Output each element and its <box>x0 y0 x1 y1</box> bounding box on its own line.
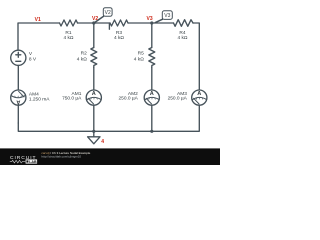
svg-text:750.0 µA: 750.0 µA <box>62 96 82 102</box>
svg-text:4 kΩ: 4 kΩ <box>64 35 74 41</box>
net flag V3 box <box>162 11 172 20</box>
wire AM4 to bottom rail <box>17 105 19 123</box>
junction dot bottom at ground <box>92 130 95 133</box>
svg-text:R2: R2 <box>81 51 87 57</box>
wire branch V3 node down to R5 <box>151 23 153 48</box>
svg-text:A: A <box>92 91 96 97</box>
wire R2 to AM1 <box>93 68 95 91</box>
wire stub below R3 start <box>108 23 110 29</box>
ammeter AM4 circle <box>11 90 26 105</box>
ground stem <box>93 131 95 137</box>
svg-text:V1: V1 <box>35 17 41 23</box>
svg-text:250.0 µA: 250.0 µA <box>168 96 188 102</box>
ammeter AM2 gauge and needle <box>145 97 159 103</box>
ammeter AM3 gauge and needle <box>192 97 206 103</box>
ammeter AM3 circle <box>192 90 207 105</box>
wire R5 to AM2 <box>151 68 153 91</box>
resistor R3 <box>110 20 128 26</box>
footer logo LAB box <box>26 159 37 163</box>
voltage source V circle <box>11 50 26 65</box>
resistor R4 <box>174 20 194 27</box>
svg-text:1.250 mA: 1.250 mA <box>29 97 50 103</box>
node V3 junction dot top <box>150 21 153 24</box>
svg-text:V3: V3 <box>147 16 153 22</box>
svg-text:A: A <box>150 91 154 97</box>
ground triangle <box>88 137 100 144</box>
node V2 junction dot top <box>92 21 95 24</box>
ammeter AM1 circle <box>86 90 101 105</box>
ammeter AM4 gauge and needle (rotated 180) <box>11 91 25 97</box>
ammeter AM1 gauge and needle <box>87 97 101 103</box>
svg-text:A: A <box>197 91 201 97</box>
ammeter AM2 circle <box>144 90 159 105</box>
net flag V2 box <box>103 8 112 17</box>
wire bottom rail <box>18 105 199 131</box>
svg-text:4 kΩ: 4 kΩ <box>178 35 188 41</box>
wire top rail between R3 and R4 <box>128 22 174 24</box>
resistor R5 <box>149 48 155 68</box>
svg-text:4 kΩ: 4 kΩ <box>134 56 144 62</box>
junction dot bottom AM2 <box>150 130 153 133</box>
voltage source V plus sign <box>16 52 21 57</box>
svg-text:R5: R5 <box>138 51 144 57</box>
wire top rail between R1 and R3 <box>78 22 111 24</box>
wire AM1 to bottom rail <box>93 105 95 131</box>
footer logo zigzag <box>10 160 25 163</box>
voltage source V minus sign <box>16 60 21 62</box>
svg-text:V2: V2 <box>92 16 98 22</box>
svg-text:4 kΩ: 4 kΩ <box>114 35 124 41</box>
svg-text:http://circuitlab.com/c/jmgm10: http://circuitlab.com/c/jmgm10 <box>41 154 81 158</box>
wire top right corner down <box>193 23 199 90</box>
resistor R2 <box>91 48 97 68</box>
svg-text:V3: V3 <box>164 13 170 19</box>
svg-text:LAB: LAB <box>29 160 37 164</box>
wire V to AM4 <box>17 65 19 90</box>
net flag V2 pointer <box>95 16 104 22</box>
svg-text:4: 4 <box>101 139 104 145</box>
svg-text:A: A <box>16 98 20 104</box>
wire AM2 to bottom rail <box>151 105 153 131</box>
svg-text:4 kΩ: 4 kΩ <box>77 56 87 62</box>
wire branch V2 node down to R2 <box>93 23 95 48</box>
footer bar <box>0 148 220 165</box>
net flag V3 pointer <box>155 19 162 22</box>
svg-text:8 V: 8 V <box>29 57 37 63</box>
svg-text:250.0 µA: 250.0 µA <box>118 96 138 102</box>
resistor R1 <box>60 20 78 26</box>
svg-text:V2: V2 <box>105 10 111 16</box>
wire top rail left segment <box>18 23 60 50</box>
